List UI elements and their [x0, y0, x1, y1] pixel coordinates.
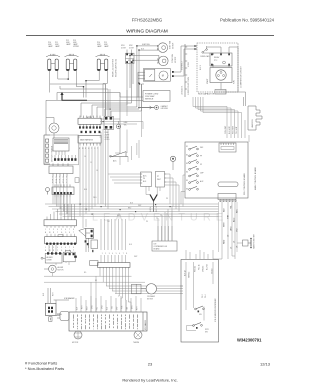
compressor interior rotated labels [200, 65, 236, 84]
wire fan2 feeds [130, 55, 159, 88]
svg-text:DOOR: DOOR [129, 48, 135, 50]
lamp L3 fresh food [96, 54, 110, 71]
svg-text:7: 7 [69, 229, 70, 231]
wire dispenser entry [180, 250, 213, 286]
dispenser rotated labels top [185, 264, 214, 278]
svg-text:Y: Y [57, 232, 58, 234]
door switch block 2 [104, 117, 114, 130]
compressor motor box [210, 68, 232, 83]
svg-text:P6: P6 [143, 178, 145, 180]
svg-text:K2: K2 [186, 155, 188, 157]
svg-text:BRN: BRN [132, 305, 134, 309]
svg-text:6: 6 [119, 253, 120, 255]
svg-text:MAIN CONTROL BOARD: MAIN CONTROL BOARD [254, 167, 257, 190]
wire center vertical bus [80, 84, 110, 216]
Y junction rotated labels [150, 206, 158, 212]
svg-text:BLU 17: BLU 17 [207, 264, 209, 270]
svg-text:LAMP: LAMP [55, 45, 60, 48]
svg-text:ORG WHT: ORG WHT [225, 126, 227, 134]
timer thick stub [139, 83, 141, 85]
connector strip P3 [49, 163, 73, 176]
thermistor lollipop [170, 156, 175, 170]
svg-text:12/13: 12/13 [260, 362, 271, 367]
board switch row 5 [189, 173, 199, 177]
fan motor M1 (evaporator) [157, 43, 167, 53]
svg-text:16: 16 [96, 170, 98, 172]
svg-text:ADC: ADC [113, 160, 117, 163]
terminal legend rotated text [181, 61, 191, 95]
crusher motor circle [141, 284, 157, 294]
wire right column verticals [156, 206, 172, 241]
svg-text:WHT 13: WHT 13 [189, 272, 191, 278]
board switch row 1 [189, 146, 199, 150]
wire compressor to right riser [238, 92, 246, 106]
svg-text:FF: FF [200, 156, 202, 158]
dispenser internal wires [186, 262, 213, 331]
ground 2 label [124, 122, 129, 126]
svg-text:3: 3 [53, 247, 54, 249]
svg-text:BLK WHT: BLK WHT [229, 126, 231, 134]
wire led box feeds [158, 226, 172, 241]
svg-text:ORG 16: ORG 16 [203, 266, 205, 272]
wire lamp L2 bottoms [68, 71, 83, 98]
icemaker internal wire code labels [74, 315, 138, 330]
svg-text:T: T [73, 250, 74, 252]
svg-text:HARNESS: HARNESS [251, 119, 254, 128]
svg-text:MOTOR: MOTOR [147, 299, 154, 301]
svg-text:23: 23 [148, 362, 153, 367]
svg-text:WHT: WHT [53, 292, 55, 296]
svg-text:YEL: YEL [107, 221, 110, 223]
aux box A [41, 252, 62, 263]
compressor feed arrowheads [194, 45, 197, 50]
wire label column verticals [222, 202, 235, 252]
wire bundle lower horizontals [44, 276, 183, 293]
svg-text:WIRING DIAGRAM: WIRING DIAGRAM [126, 29, 168, 35]
svg-text:MOTOR: MOTOR [58, 269, 65, 271]
svg-text:Y: Y [57, 250, 58, 252]
connector strip P2 labels [79, 148, 98, 150]
lamp L1 freezer [46, 54, 60, 71]
svg-text:7: 7 [69, 247, 70, 249]
wire label column into dispenser [213, 238, 235, 259]
svg-text:4: 4 [57, 247, 58, 249]
svg-text:MAIN HARNESS: MAIN HARNESS [80, 139, 94, 142]
svg-text:WHT: WHT [224, 222, 226, 227]
power cord label box [143, 91, 170, 102]
svg-text:DEFROST HEATER: DEFROST HEATER [51, 145, 54, 162]
svg-text:ICE MAKER: ICE MAKER [64, 297, 75, 300]
svg-text:P9: P9 [146, 221, 148, 223]
svg-text:MOTOR: MOTOR [72, 342, 79, 344]
svg-text:8: 8 [126, 253, 127, 255]
wire bundle long horizontals [45, 204, 219, 217]
wire door drop joins [115, 90, 142, 160]
aux box B [63, 250, 77, 261]
svg-text:BLK: BLK [130, 203, 133, 205]
connector strip P1 [78, 116, 101, 125]
svg-text:YEL: YEL [124, 124, 127, 126]
scattered wire code flecks [84, 156, 168, 282]
svg-text:K1: K1 [186, 146, 188, 148]
svg-text:M: M [162, 75, 164, 78]
wire lamp L3 bottoms [86, 71, 107, 98]
board switch labels [186, 146, 204, 191]
junction dots bundles [80, 109, 171, 215]
wire timer leads left [138, 72, 145, 97]
svg-text:P2 4: P2 4 [205, 294, 207, 298]
svg-text:1: 1 [45, 247, 46, 249]
svg-text:TIMER L1 4 DOOR SW: TIMER L1 4 DOOR SW [113, 59, 115, 77]
svg-text:W: W [49, 232, 51, 234]
svg-text:DEF: DEF [200, 147, 203, 149]
svg-text:YEL WHT: YEL WHT [236, 127, 238, 134]
dispenser box outline [181, 260, 219, 343]
wire icemaker drop links [91, 276, 131, 312]
svg-text:WHT: WHT [137, 306, 139, 310]
svg-text:FFHS2622MBG: FFHS2622MBG [132, 18, 163, 23]
dispenser mid labels [202, 294, 207, 298]
svg-text:YEL: YEL [97, 307, 99, 310]
svg-text:YEL 15: YEL 15 [199, 264, 201, 270]
wire door switch drops [103, 84, 120, 154]
svg-text:HTR: HTR [228, 214, 230, 219]
board switch row 3 [189, 160, 199, 164]
svg-text:DOOR: DOOR [121, 48, 127, 50]
svg-text:SW2: SW2 [129, 45, 133, 47]
bottom connector strip A [44, 204, 76, 228]
board switch row 4 [189, 166, 199, 170]
svg-text:RED 14: RED 14 [195, 266, 197, 272]
wire label column rotated texts [224, 204, 239, 249]
dispenser switch 2 [193, 323, 210, 334]
svg-text:AUGER: AUGER [58, 266, 65, 269]
wire bottom bus verticals [101, 219, 126, 250]
fan feed tiny labels [141, 43, 150, 50]
Y junction [146, 186, 160, 212]
connector strip P4 with bulb [46, 184, 75, 197]
svg-text:RED: RED [224, 239, 226, 244]
ground symbol [138, 105, 159, 109]
wire lamp joining run [50, 84, 108, 116]
svg-text:RUN CAPACITOR: RUN CAPACITOR [198, 93, 215, 96]
svg-text:GRY: GRY [117, 306, 119, 310]
svg-text:VIO: VIO [112, 305, 114, 309]
svg-text:B: B [45, 232, 46, 234]
svg-text:ORG: ORG [93, 197, 97, 199]
svg-text:PTC: PTC [214, 60, 218, 62]
svg-text:G: G [61, 232, 63, 234]
connector strip P3 labels [52, 177, 68, 185]
wire bottom bus labels [102, 253, 128, 255]
svg-text:BLU: BLU [107, 306, 109, 310]
crusher labels [147, 296, 156, 301]
icemaker pin rotated labels [77, 305, 139, 310]
svg-text:N WHITE 2: N WHITE 2 [182, 61, 184, 70]
svg-text:MOTOR: MOTOR [173, 42, 175, 49]
svg-text:RED WHT: RED WHT [233, 126, 235, 134]
heater assembly pad row [54, 155, 77, 161]
svg-text:G: G [61, 250, 63, 252]
svg-text:15: 15 [90, 162, 92, 164]
svg-text:6: 6 [65, 229, 66, 231]
small box P7 [156, 171, 167, 187]
svg-text:COND FAN: COND FAN [171, 54, 174, 63]
wire bundle mid horizontals [100, 119, 143, 183]
lamp L3 label [97, 42, 109, 48]
svg-text:Rendered by LeadVenture, Inc.: Rendered by LeadVenture, Inc. [122, 378, 177, 383]
board top connector [219, 143, 236, 152]
icemaker plug [57, 312, 69, 321]
strip B to aux label rows [45, 247, 74, 252]
small box P5 [75, 178, 79, 183]
svg-text:DRIVE: DRIVE [47, 260, 53, 262]
junction dots lamp area [68, 78, 87, 87]
svg-text:1: 1 [45, 229, 46, 231]
svg-text:W342300791: W342300791 [237, 338, 262, 343]
svg-text:K3: K3 [186, 163, 188, 165]
svg-text:GRN: GRN [117, 215, 120, 217]
svg-text:RED: RED [87, 306, 89, 310]
aux component right of column [237, 238, 252, 249]
svg-text:BLK: BLK [143, 181, 147, 183]
svg-text:BLK 1: BLK 1 [200, 65, 202, 70]
svg-text:COMPRESSOR CIRCUIT: COMPRESSOR CIRCUIT [241, 65, 243, 88]
svg-text:7: 7 [123, 253, 124, 255]
connector strip P2 [78, 135, 101, 145]
svg-text:2 WHT: 2 WHT [105, 134, 110, 136]
door switch S1 [126, 53, 135, 63]
svg-text:WHT: WHT [138, 205, 141, 207]
svg-text:4: 4 [57, 229, 58, 231]
defrost timer assembly [143, 69, 173, 82]
svg-text:SECURE LAMP BLK 13: SECURE LAMP BLK 13 [115, 59, 118, 77]
board switch row 2 [189, 153, 199, 157]
svg-text:WHT: WHT [134, 256, 137, 258]
svg-text:4 RED: 4 RED [188, 61, 190, 67]
bottom motor labels [58, 266, 65, 271]
board switch row 6 [189, 180, 199, 184]
svg-text:RD: RD [84, 272, 87, 274]
wire strips to bundles [53, 177, 70, 217]
wire left drop to connector [46, 100, 57, 135]
small connector box right [90, 261, 98, 266]
svg-text:GRN: GRN [92, 305, 94, 309]
svg-text:K4: K4 [186, 172, 188, 174]
svg-text:EVAP FAN: EVAP FAN [142, 43, 150, 46]
fan motor M1 label [169, 40, 175, 49]
small box P6 [141, 172, 152, 186]
svg-text:P2 3: P2 3 [202, 294, 204, 298]
svg-text:WATER TUBE HTR: WATER TUBE HTR [253, 233, 256, 249]
wire valve feeds [49, 217, 89, 277]
svg-text:B: B [45, 250, 46, 252]
dispenser switch 1 [195, 306, 205, 316]
compressor relay box [210, 53, 232, 66]
small connector strip bottom [98, 263, 131, 270]
svg-text:4: 4 [112, 253, 113, 255]
switch block 2 labels below [105, 132, 111, 141]
svg-text:FZ: FZ [200, 164, 202, 166]
svg-text:WTR: WTR [205, 329, 209, 331]
fan2 junction dots [129, 55, 133, 61]
ground symbol 2 [116, 121, 121, 129]
board left edge stubs [181, 175, 185, 207]
svg-text:UPPER: UPPER [73, 46, 80, 48]
svg-text:BLU: BLU [84, 189, 87, 191]
power entry arrow thick wire [60, 92, 87, 101]
comb connector shape [248, 106, 262, 130]
svg-text:BLK: BLK [224, 208, 226, 212]
wire control board verticals [227, 107, 245, 139]
svg-text:3: 3 [109, 253, 110, 255]
wire icemaker left link [55, 300, 57, 303]
svg-text:T: T [73, 232, 74, 234]
connector strip P1 pad rows [79, 124, 101, 133]
svg-text:MOTOR: MOTOR [175, 56, 177, 63]
wire compressor internals [203, 46, 238, 53]
svg-text:PNK: PNK [122, 305, 124, 309]
svg-text:P8: P8 [166, 198, 168, 200]
svg-text:5: 5 [116, 253, 117, 255]
door switch rotated label [113, 59, 118, 77]
lamp L1 label [48, 42, 60, 48]
overload protector [200, 49, 210, 58]
led box [152, 241, 177, 251]
svg-text:3: 3 [53, 229, 54, 231]
heater assembly enclosure [44, 135, 79, 165]
wire timer right to compressor [174, 46, 197, 76]
svg-text:BLK: BLK [129, 244, 132, 246]
strip A pin labels [45, 229, 74, 234]
svg-text:W: W [49, 250, 51, 252]
svg-text:14: 14 [84, 156, 86, 158]
svg-text:LAMP: LAMP [104, 45, 109, 48]
wire door switch top stubs [127, 50, 132, 54]
svg-text:1: 1 [102, 253, 103, 255]
svg-text:R: R [53, 232, 55, 234]
door switch top labels [121, 45, 135, 50]
wire icemaker feeds [43, 288, 69, 316]
defrost heater box [53, 138, 69, 155]
svg-text:SW: SW [128, 60, 131, 62]
title rule line [26, 35, 274, 37]
terminal legend vertical line [185, 44, 187, 97]
svg-text:SERVICE: SERVICE [145, 99, 154, 101]
board bottom connector [218, 194, 236, 203]
fan motor M2 (condenser) [158, 56, 168, 66]
svg-text:P7: P7 [157, 176, 159, 178]
svg-text:ICE & WATER DISPENSER: ICE & WATER DISPENSER [214, 298, 217, 322]
svg-text:O: O [65, 232, 67, 234]
icemaker top pins [76, 296, 141, 312]
svg-text:AUX: AUX [200, 180, 204, 183]
svg-text:ICE MAKER: ICE MAKER [144, 319, 147, 330]
wire comb to board [248, 135, 250, 142]
icemaker fill tube box [45, 303, 56, 321]
svg-text:5 WIRE VIOLET 6 GRN: 5 WIRE VIOLET 6 GRN [188, 76, 190, 95]
wire compressor motor leads [213, 47, 238, 92]
svg-text:BLK: BLK [77, 306, 79, 310]
svg-text:CMP: CMP [200, 173, 204, 175]
wire main feed companions [50, 84, 143, 100]
svg-text:START: START [206, 79, 209, 84]
svg-text:2: 2 [105, 253, 106, 255]
svg-text:FFH CONTROL BOARD: FFH CONTROL BOARD [243, 173, 246, 195]
svg-text:U: U [69, 232, 70, 234]
defrost thermostat circle [49, 123, 59, 138]
wire fan feeds [137, 46, 159, 50]
svg-text:R: R [53, 250, 55, 252]
svg-text:SW: SW [205, 332, 208, 334]
svg-text:LAMP: LAMP [66, 43, 71, 46]
wire nested elbows into P1 [81, 46, 142, 117]
svg-text:VIO: VIO [237, 228, 239, 232]
wire bottom bus into strip [101, 255, 126, 263]
svg-text:WHT: WHT [157, 179, 161, 181]
svg-text:5: 5 [61, 229, 62, 231]
icemaker motor wheel [72, 331, 82, 344]
svg-text:8: 8 [73, 229, 74, 231]
svg-text:OVERLOAD: OVERLOAD [200, 55, 210, 58]
lamp L2 freezer [65, 54, 79, 71]
ground symbol label [161, 105, 169, 110]
board switch row 7 [189, 186, 199, 190]
svg-text:AUGER: AUGER [47, 256, 54, 259]
auger connector with flag [79, 228, 98, 252]
svg-text:THERM: THERM [133, 342, 140, 344]
svg-text:ICE: ICE [199, 314, 202, 316]
svg-text:LAMP: LAMP [97, 45, 102, 48]
wire strip pins down to icemaker [100, 269, 128, 302]
svg-text:ADC: ADC [143, 175, 147, 178]
wire P7 right bends [165, 174, 180, 212]
bottom motor circle [44, 265, 56, 273]
fan motor M2 label [171, 54, 177, 63]
svg-text:RUN: RUN [234, 80, 236, 84]
svg-text:SW1: SW1 [121, 45, 125, 47]
svg-text:LAMP: LAMP [48, 45, 53, 48]
board heater bar [218, 182, 238, 187]
crusher solenoid boxes [132, 284, 142, 294]
bottom connector strip B [45, 234, 77, 245]
svg-text:5: 5 [61, 247, 62, 249]
svg-text:ORG: ORG [102, 305, 104, 309]
run capacitor [215, 90, 226, 95]
svg-text:BLU: BLU [237, 209, 239, 213]
svg-text:BOARD: BOARD [154, 248, 161, 251]
svg-text:WHT: WHT [82, 305, 84, 309]
svg-text:K5: K5 [186, 180, 188, 182]
left connector J1 [44, 135, 50, 164]
svg-text:BLK: BLK [43, 292, 45, 296]
svg-text:* Non-Illustrated Parts: * Non-Illustrated Parts [25, 366, 64, 371]
svg-text:AUG: AUG [233, 217, 236, 222]
svg-text:L1 BLACK 1: L1 BLACK 1 [181, 86, 184, 95]
svg-text:EVAP FAN: EVAP FAN [169, 40, 172, 49]
compressor compartment dashed box [197, 43, 238, 92]
fan feed junction dots [136, 45, 140, 51]
adaptive defrost ramp switch [110, 152, 129, 165]
main control board outline [185, 142, 248, 198]
lamp L2 label [66, 40, 80, 48]
icemaker thermostat wheel [133, 331, 142, 344]
wire label column outline [219, 202, 238, 252]
svg-text:GROUND: GROUND [161, 108, 169, 110]
wire legend risers to board feeds [193, 97, 242, 113]
svg-text:8: 8 [73, 247, 74, 249]
svg-text:K6: K6 [186, 189, 188, 191]
